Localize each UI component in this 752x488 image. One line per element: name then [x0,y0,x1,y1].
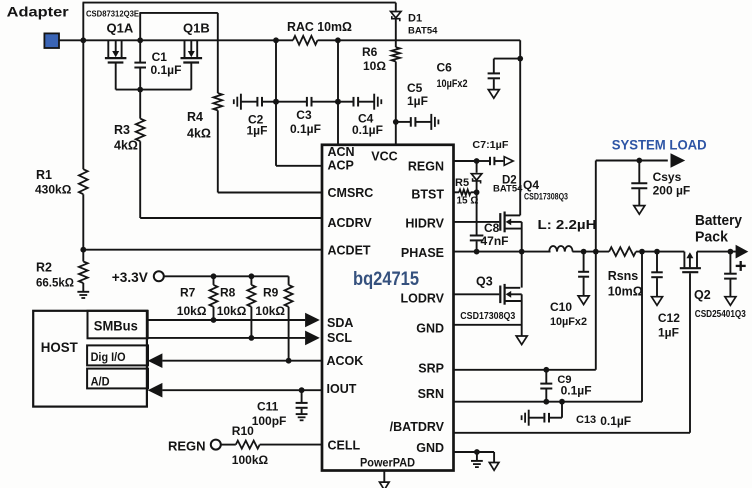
wire Csys lead2 [638,189,640,205]
svg-text:REGN: REGN [408,160,444,174]
wire C4 left [338,101,354,103]
svg-text:C6: C6 [437,60,453,74]
wire C5 left [396,121,411,123]
resistor R8 [247,285,255,307]
wire battery cap lead2 [729,280,731,297]
label C10 value [550,316,587,328]
svg-text:Csys: Csys [653,170,682,184]
wire R8 stub [250,276,252,285]
label Q1A [107,20,134,35]
wire C11 lead [301,390,303,403]
wire system rail up [595,161,597,252]
svg-text:SYSTEM LOAD: SYSTEM LOAD [612,137,707,153]
svg-text:CSD87312Q3E: CSD87312Q3E [86,10,139,19]
node REGN [474,158,480,164]
ground signal C11 [296,414,308,420]
svg-text:PHASE: PHASE [401,246,444,260]
svg-text:C12: C12 [658,311,680,325]
svg-text:10mΩ: 10mΩ [608,284,643,298]
pin label ACP [328,158,354,172]
svg-text:BAT54: BAT54 [408,25,438,36]
capacitor C10 [578,272,589,277]
svg-text:ACDET: ACDET [328,244,371,258]
ground power C10 [578,296,589,305]
capacitor C2 [257,97,262,107]
svg-text:10kΩ: 10kΩ [177,304,207,318]
ground signal GND pin [471,461,483,467]
svg-text:CSD17308Q3: CSD17308Q3 [460,310,515,322]
node C10 tap [581,249,587,255]
arrow IOUT [148,383,163,398]
wire C7 to arrow [495,160,504,162]
svg-text:0.1µF: 0.1µF [151,63,182,77]
label C9 value [561,383,592,397]
wire C3 left [276,101,307,103]
resistor R4 [213,93,222,110]
wire SRN [454,401,642,403]
wire C6 stub [494,58,520,60]
label C3 [296,108,312,122]
wire Q3 drain up [521,252,523,288]
wire REGN to R10 [221,444,236,446]
label R1 value [35,183,72,197]
svg-text:REGN: REGN [168,438,206,453]
capacitor C1 [134,63,146,68]
capacitor C7 [490,157,494,165]
svg-text:R6: R6 [362,45,378,59]
arrow SDA [305,313,320,328]
IC U1 bq24715 outline [322,145,454,471]
svg-text:R8: R8 [220,285,236,299]
svg-text:CMSRC: CMSRC [328,186,374,200]
diode D2 [471,174,481,184]
svg-text:CELL: CELL [328,439,361,453]
svg-text:+3.3V: +3.3V [112,270,148,285]
svg-text:4kΩ: 4kΩ [187,127,211,141]
wire ACP [276,165,322,167]
label SYSTEM LOAD [612,137,707,153]
label R5 value [457,195,479,206]
wire ACP vertical [275,40,277,166]
wire R9 stub [288,276,290,285]
wire C4 right [359,101,375,103]
node R7 SDA [211,317,217,323]
label C13 value [600,414,631,428]
terminal +3.3V [154,271,164,281]
pin label LODRV [400,292,444,306]
capacitor C5 [411,117,416,127]
resistor R6 [392,47,400,61]
label SMBus [94,319,138,334]
wire Q4 source down [521,222,523,252]
svg-text:PowerPAD: PowerPAD [360,455,415,469]
wire C12 lead [656,252,658,273]
label Q4 [523,178,539,192]
node C12 tap [654,249,660,255]
wire IOUT [162,389,322,391]
svg-text:BAT54: BAT54 [493,184,523,195]
resistor R10 [236,441,260,449]
wire D1 to rail [395,19,397,48]
label Q4 type [524,192,568,202]
node Q4 source phase [519,249,525,255]
pin label ACOK [327,354,364,368]
label C5 value [407,94,428,108]
wire R9 to ACOK [288,307,290,361]
node ACDET divider [80,247,86,253]
wire ACDET [83,249,322,251]
wire Q1 gate node down [139,90,141,119]
svg-text:10kΩ: 10kΩ [255,304,285,318]
label REGN terminal [168,438,206,453]
wire R6 to VCC [395,62,397,145]
inductor L [549,246,572,252]
svg-text:ACN: ACN [328,145,355,159]
pin label GND [416,322,444,336]
label D2 [502,174,517,186]
pin label BTST [411,188,444,202]
svg-text:10µFx2: 10µFx2 [550,316,587,328]
wire PHASE [454,251,551,253]
wire R1 to node [82,194,84,261]
transistor Q1A [105,40,127,89]
pin label SRN [418,387,444,401]
svg-text:/BATDRV: /BATDRV [390,420,445,434]
svg-text:SRP: SRP [418,362,444,376]
pin label SDA [327,316,353,330]
label D1 [408,12,422,24]
node R9 ACOK [286,358,292,364]
svg-text:10Ω: 10Ω [363,59,386,73]
label C6 [437,60,453,74]
label Pack [695,229,729,246]
capacitor C12 [651,272,663,277]
svg-text:C7:1µF: C7:1µF [472,139,509,151]
svg-text:BTST: BTST [411,188,444,202]
label C1 [152,50,168,64]
label D1 value BAT54 [408,25,438,36]
terminal REGN [211,440,221,450]
node battery cap tap [728,249,734,255]
wire C11 lead2 [301,409,303,414]
wire SDA [148,319,306,321]
label Csys value [653,183,691,197]
wire R4 to CMSRC corner [217,110,219,192]
label A/D [91,374,110,388]
transistor Q3 [500,284,521,305]
wire Q1 common node up [139,13,141,40]
node RAC right [335,37,341,43]
label C13 [576,414,596,426]
wire bypass top [83,2,396,4]
wire GND1 [454,324,522,326]
svg-text:R7: R7 [180,285,196,299]
svg-text:0.1µF: 0.1µF [290,122,321,136]
svg-text:SMBus: SMBus [94,319,138,334]
ground signal R2 [77,292,89,298]
pin label GND [416,441,444,455]
label R3 [114,123,130,137]
label C7 [472,139,509,151]
label R2 [36,261,52,275]
wire R8 to SCL [250,307,252,338]
pin label REGN [408,160,444,174]
svg-text:bq24715: bq24715 [353,269,419,290]
svg-text:CSD25401Q3: CSD25401Q3 [695,308,746,320]
transistor Q1B [181,40,203,89]
svg-text:430kΩ: 430kΩ [35,183,72,197]
svg-text:100kΩ: 100kΩ [232,453,269,467]
label C12 value [658,325,679,339]
ground signal C5 [431,114,438,130]
arrow SYSTEM LOAD [671,153,686,168]
wire C1 bottom lead [139,68,141,89]
pin label /BATDRV [390,420,445,434]
wire SRN vertical [641,252,643,402]
resistor R7 [210,285,218,307]
wire Q3 source down [521,294,523,336]
capacitor Csys [631,183,647,188]
pin label HIDRV [405,217,444,231]
ground signal C2 [234,94,241,110]
svg-text:R9: R9 [263,285,279,299]
pin label VCC [371,149,397,163]
svg-text:Q2: Q2 [694,288,711,302]
resistor R9 [285,285,293,307]
wire HIDRV [454,221,500,223]
wire C13 right [549,417,562,419]
node C6 tap [517,56,523,62]
wire bypass up-left [82,3,84,41]
resistor R1 [79,169,88,194]
wire CELL [260,444,322,446]
label C4 value [352,123,383,137]
svg-text:SCL: SCL [327,331,352,345]
wire R3 to ACDRV corner [139,141,141,218]
capacitor C9 [540,384,552,389]
wire R7 stub [213,276,215,285]
svg-text:1µF: 1µF [247,123,268,137]
label R10 value [232,453,269,467]
wire ACN vertical [337,40,339,145]
svg-text:ACOK: ACOK [327,354,364,368]
svg-text:HOST: HOST [41,340,79,355]
wire bypass down to D1 [395,3,397,11]
wire R7 to SDA [213,307,215,320]
wire GND2 [454,451,494,453]
svg-text:HIDRV: HIDRV [405,217,444,231]
ground power Cbat [725,297,736,306]
node system rail tap [593,249,599,255]
wire R5 to node [471,191,477,193]
wire GND2 earth stub [476,452,478,460]
label R8 value [217,304,247,318]
label R9 value [255,304,285,318]
resistor Rsns [609,247,636,256]
node ACN cap tap [335,99,341,105]
wire BATDRV [454,432,690,434]
node Q1 gate / C1 bottom [137,87,143,93]
node R7 top [211,273,217,279]
wire down to R4 [217,13,219,93]
label R7 value [177,304,207,318]
svg-text:Battery: Battery [695,212,743,229]
transistor Q2 [680,252,701,273]
wire C6 bottom lead [493,79,495,89]
svg-text:1µF: 1µF [407,94,428,108]
svg-text:RAC 10mΩ: RAC 10mΩ [287,20,352,34]
label RAC value [287,20,352,34]
label C1 value [151,63,182,77]
svg-text:Rsns: Rsns [608,269,639,283]
wire adapter rail left [83,39,293,41]
ground power C12 [652,297,663,306]
capacitor C4 [354,97,359,107]
svg-text:R2: R2 [36,261,52,275]
node C9 bottom [543,399,549,405]
svg-text:66.5kΩ: 66.5kΩ [36,278,74,290]
wire SRP [454,369,596,371]
pin label PHASE [401,246,444,260]
wire rail after RAC [318,39,521,41]
node C2 C3 junction [273,99,279,105]
svg-text:Q1A: Q1A [107,20,134,35]
diode D1 [391,12,401,22]
svg-text:SDA: SDA [327,316,353,330]
svg-text:LODRV: LODRV [400,292,444,306]
wire adapter to rail [59,39,84,41]
wire C1 top lead [139,40,141,62]
wire CMSRC [218,192,322,194]
svg-text:R1: R1 [36,168,52,182]
wire C5 right [416,121,431,123]
svg-text:ACDRV: ACDRV [328,216,373,230]
node GND2 [474,449,480,455]
svg-text:GND: GND [416,322,444,336]
AD box [87,369,148,389]
pin label SCL [327,331,352,345]
svg-text:Q1B: Q1B [183,20,210,35]
pin label CELL [328,439,361,453]
label Q1B [183,20,210,35]
label C5 [407,81,423,95]
capacitor C6 [488,73,500,78]
svg-text:D1: D1 [408,12,422,24]
label R5 [455,177,469,189]
svg-text:200 µF: 200 µF [653,183,691,197]
label C4 [358,111,374,125]
pin label IOUT [327,382,357,396]
label Q2 type [695,308,746,320]
wire Csys lead [638,161,640,184]
wire C10 lead2 [583,278,585,296]
ground power Csys [634,206,645,215]
wire GND2 corner [493,452,495,462]
resistor RAC [293,36,318,45]
label Q3 type [460,310,515,322]
svg-text:Adapter: Adapter [7,4,70,20]
svg-text:Q4: Q4 [523,178,539,192]
svg-text:1µF: 1µF [658,325,679,339]
svg-text:0.1µF: 0.1µF [561,383,592,397]
pin label ACDET [328,244,371,258]
resistor R5 [459,190,471,195]
wire R2 to ground [82,283,84,291]
node R8 top [249,273,255,279]
label Battery [695,212,743,229]
label L value [538,218,597,232]
arrow ACOK [148,353,163,368]
label R1 [36,168,52,182]
svg-text:10µFx2: 10µFx2 [437,78,468,90]
node C11 tap [299,387,305,393]
ground signal C4 [374,94,381,110]
capacitor C13 [544,413,549,423]
capacitor C11 [296,403,308,408]
pin label PowerPAD [360,455,415,469]
ground power Q3 [516,336,527,345]
svg-text:Dig I/O: Dig I/O [91,352,126,364]
label Csys [653,170,682,184]
svg-text:100pF: 100pF [252,414,287,428]
label C6 value [437,78,468,90]
svg-text:10kΩ: 10kΩ [217,304,247,318]
wire C3 right [312,101,338,103]
label R2 value [36,278,74,290]
svg-text:ACP: ACP [328,158,354,172]
wire Q2 to battery [697,251,736,253]
svg-text:VCC: VCC [371,149,397,163]
wire C2 left [241,101,258,103]
wire Rsns to Q2 [636,251,685,253]
wire REGN to C7 [477,160,490,162]
svg-text:15 Ω: 15 Ω [457,195,479,206]
node rail C1 tap [137,37,143,43]
capacitor Cbat [724,274,737,279]
wire ACOK [162,360,322,362]
svg-text:Q3: Q3 [476,274,493,288]
adapter connector J1 [44,33,59,48]
label R3 value [114,139,138,153]
wire PowerPAD stub [383,471,385,483]
wire node to C8 [476,192,478,235]
pin label CMSRC [328,186,374,200]
pin label SRP [418,362,444,376]
capacitor C8 [470,236,484,241]
arrow C7 out [504,157,513,166]
wire C13 down [561,402,563,418]
label R8 [220,285,236,299]
wire C2 right [263,101,277,103]
svg-text:Pack: Pack [695,229,729,246]
transistor Q4 [500,212,521,233]
label C11 [257,400,279,414]
wire 3.3V rail [164,275,289,277]
wire BTST [454,191,459,193]
label C10 [550,300,572,314]
label Rsns [608,269,639,283]
label CSD87312Q3E [86,10,139,19]
svg-text:C3: C3 [296,108,312,122]
label R6 value [363,59,386,73]
wire ACDRV [140,217,322,219]
svg-text:SRN: SRN [418,387,444,401]
node BTST boot [474,189,480,195]
node R8 SCL [249,335,255,341]
battery plus sign [736,261,746,271]
wire C8 to PHASE [476,241,478,251]
svg-text:IOUT: IOUT [327,382,357,396]
